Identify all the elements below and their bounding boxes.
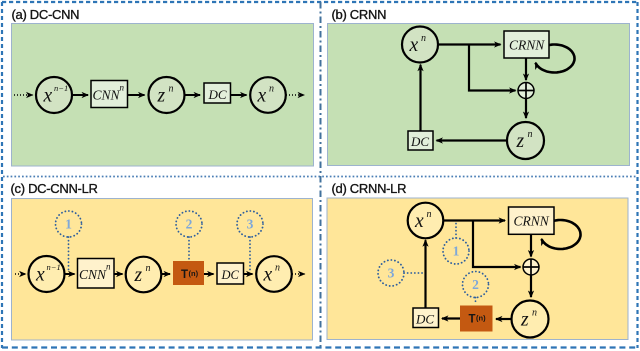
svg-text:DC: DC <box>415 312 434 327</box>
svg-text:x: x <box>35 264 45 285</box>
node x^n (a) <box>250 77 286 113</box>
wire x to CNN (c) <box>65 273 75 275</box>
svg-text:n: n <box>275 262 280 273</box>
svg-text:CNN: CNN <box>79 267 107 282</box>
svg-text:n−1: n−1 <box>54 83 68 93</box>
vertical dash-dot divider <box>320 2 322 347</box>
node x^n (c) <box>256 256 292 292</box>
svg-text:n−1: n−1 <box>47 262 61 272</box>
node x^{n-1} (c) <box>29 256 65 292</box>
wire z^n to DC (b) <box>437 139 507 141</box>
self-loop CRNN (b) <box>536 45 575 73</box>
svg-text:3: 3 <box>388 266 395 281</box>
wire CRNN to adder (d) <box>530 235 532 257</box>
stem 1 (c) <box>68 237 70 271</box>
box DC (b) <box>408 131 433 150</box>
svg-text:n: n <box>169 83 174 94</box>
box CRNN (b) <box>504 31 549 58</box>
svg-text:x: x <box>414 211 424 232</box>
adder (b) <box>518 83 534 99</box>
stem 3 (d) <box>404 272 423 274</box>
svg-text:z: z <box>516 131 525 152</box>
panel (d) <box>327 198 628 340</box>
svg-text:(n): (n) <box>476 314 486 323</box>
svg-text:(d) CRNN-LR: (d) CRNN-LR <box>332 181 407 196</box>
svg-text:2: 2 <box>186 217 193 232</box>
wire x^n to CRNN (d) <box>443 219 505 221</box>
self-loop CRNN (d) <box>542 220 581 249</box>
node z^n (b) <box>507 122 544 159</box>
stem 2 (d) <box>475 298 477 305</box>
wire T to DC (c) <box>204 273 214 275</box>
svg-text:(n): (n) <box>189 269 199 278</box>
wire CRNN to adder (b) <box>525 58 527 80</box>
box CRNN (d) <box>509 207 555 234</box>
svg-text:(c) DC-CNN-LR: (c) DC-CNN-LR <box>11 181 98 196</box>
box CNN^n (a) <box>91 81 128 108</box>
node z^n (a) <box>149 77 185 113</box>
svg-text:DC: DC <box>221 268 240 282</box>
svg-text:3: 3 <box>247 217 254 232</box>
box DC (d) <box>413 308 439 328</box>
wire CNN to z^n (c) <box>114 273 122 275</box>
wire branch from x^n line down to adder (b) <box>469 45 516 91</box>
svg-text:n: n <box>106 262 111 272</box>
panel (a) <box>12 24 314 167</box>
box T^(n) (d) <box>460 306 493 332</box>
panel (b) <box>328 24 630 166</box>
svg-text:CNN: CNN <box>93 88 121 103</box>
panel (c) <box>12 199 313 341</box>
svg-text:x: x <box>43 85 53 106</box>
step circle 3 (d) <box>378 260 404 286</box>
adder (d) <box>523 259 539 275</box>
stem 3 (c) <box>249 237 251 271</box>
box T^(n) (c) <box>173 261 204 285</box>
svg-text:2: 2 <box>472 277 479 292</box>
box DC (a) <box>204 83 231 103</box>
wire z^n to T (c) <box>162 273 171 275</box>
svg-text:n: n <box>120 83 125 93</box>
wire dotted-out (c) <box>292 273 305 275</box>
stem 2 (c) <box>188 237 190 259</box>
svg-text:DC: DC <box>208 87 227 102</box>
svg-text:n: n <box>532 307 537 318</box>
wire x^n to CRNN (b) <box>438 43 501 45</box>
step circle 1 (d) <box>443 238 469 264</box>
svg-text:T: T <box>469 314 476 326</box>
wire T to DC (d) <box>442 317 460 319</box>
wire DC to x^n (a) <box>231 94 247 96</box>
wire branch from x^n line down to adder (d) <box>473 221 521 268</box>
svg-text:x: x <box>409 35 419 56</box>
svg-text:n: n <box>421 33 426 44</box>
wire adder to z^n (d) <box>530 275 532 297</box>
box DC (c) <box>217 263 244 284</box>
svg-text:T: T <box>181 269 188 281</box>
stem 1 (d) <box>455 222 457 238</box>
node z^n (d) <box>512 301 549 338</box>
step circle 2 (c) <box>176 211 202 237</box>
wire adder to z^n (b) <box>525 99 527 119</box>
node x^n (d) <box>408 203 444 239</box>
svg-text:(a) DC-CNN: (a) DC-CNN <box>12 7 80 22</box>
wire CNN to z^n (a) <box>128 94 145 96</box>
wire DC to x^n (d) <box>424 240 426 308</box>
node x^{n-1} (a) <box>36 77 72 113</box>
wire z^n to T (d) <box>496 318 511 320</box>
svg-text:x: x <box>263 264 273 285</box>
wire DC to x^n (c) <box>244 273 253 275</box>
svg-text:CRNN: CRNN <box>509 38 545 53</box>
svg-text:CRNN: CRNN <box>514 214 550 229</box>
svg-text:(b) CRNN: (b) CRNN <box>332 7 387 22</box>
svg-text:z: z <box>157 85 166 106</box>
outer dashed frame <box>2 1 638 3</box>
step circle 1 (c) <box>56 211 82 237</box>
box CNN^n (c) <box>78 259 115 289</box>
wire dotted-in (a) <box>14 94 33 96</box>
svg-text:1: 1 <box>65 217 72 232</box>
wire z^n to DC (a) <box>185 94 200 96</box>
svg-text:n: n <box>528 129 533 140</box>
step circle 2 (d) <box>463 272 489 298</box>
wire DC to x^n (b) <box>419 65 421 131</box>
node x^n (b) <box>402 27 438 63</box>
wire dotted-out (a) <box>286 94 304 96</box>
svg-text:n: n <box>146 263 151 274</box>
wire x^{n-1} to CNN (a) <box>72 94 88 96</box>
svg-text:z: z <box>520 309 529 330</box>
svg-text:n: n <box>427 209 432 220</box>
svg-text:x: x <box>257 85 267 106</box>
svg-text:z: z <box>134 265 143 286</box>
node z^n (c) <box>126 257 162 293</box>
svg-text:n: n <box>269 83 274 94</box>
wire dotted-in (c) <box>15 273 26 275</box>
svg-text:DC: DC <box>410 134 429 149</box>
svg-text:1: 1 <box>453 244 460 259</box>
step circle 3 (c) <box>237 211 263 237</box>
horizontal dotted divider <box>3 176 637 178</box>
